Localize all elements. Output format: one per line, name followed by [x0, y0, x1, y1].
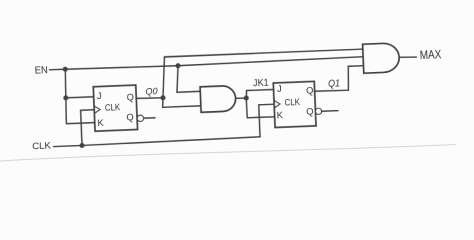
wire CLK riser to FF1: [259, 104, 276, 137]
svg-text:Q1: Q1: [328, 78, 340, 89]
svg-text:Q: Q: [306, 106, 314, 117]
and-gate G2: [363, 43, 400, 73]
flip-flop FF1: [273, 81, 316, 127]
wire EN drop to gate G1: [176, 65, 200, 92]
junction EN/G1: [175, 63, 180, 68]
svg-text:JK1: JK1: [253, 78, 269, 90]
wire G1 to J of FF1: [246, 89, 274, 98]
svg-text:Q0: Q0: [145, 86, 158, 97]
svg-text:CLK: CLK: [32, 140, 52, 152]
svg-text:Q: Q: [126, 91, 134, 102]
svg-text:CLK: CLK: [105, 102, 121, 113]
junction G1 output: [244, 95, 249, 100]
wire Q1 to gate G2: [314, 66, 365, 92]
svg-text:EN: EN: [34, 65, 48, 77]
svg-text:Q: Q: [126, 111, 134, 122]
wire FF1 notQ stub: [322, 110, 338, 113]
bubble FF0 notQ: [137, 115, 144, 122]
junction Q0: [160, 95, 165, 100]
svg-text:Q: Q: [306, 84, 314, 95]
wire FF0 notQ stub: [144, 117, 155, 120]
wire Q0 output: [136, 97, 163, 98]
junction EN/FF0: [63, 67, 68, 72]
wire EN to J/K of FF0: [64, 68, 95, 124]
bubble FF1 notQ: [315, 108, 321, 114]
svg-text:J: J: [97, 90, 102, 101]
svg-text:CLK: CLK: [284, 97, 300, 108]
svg-text:J: J: [277, 83, 282, 94]
svg-text:K: K: [276, 109, 283, 120]
wire G1 to K of FF1: [246, 97, 274, 118]
and-gate G1: [200, 85, 236, 112]
wire Q0 riser and top feedback to G2: [161, 49, 364, 98]
wire CLK bus: [54, 137, 260, 147]
junction CLK/FF0: [79, 143, 84, 148]
flip-flop FF0: [93, 85, 137, 131]
wire MAX output: [399, 57, 416, 58]
junction J of FF0: [63, 95, 68, 100]
wire EN bus: [50, 57, 364, 71]
svg-text:MAX: MAX: [420, 49, 442, 62]
wire Q0 drop to gate G1: [162, 96, 201, 107]
wire G1 output: [236, 97, 247, 100]
svg-text:K: K: [97, 117, 104, 128]
wire CLK riser to FF0: [81, 110, 96, 146]
